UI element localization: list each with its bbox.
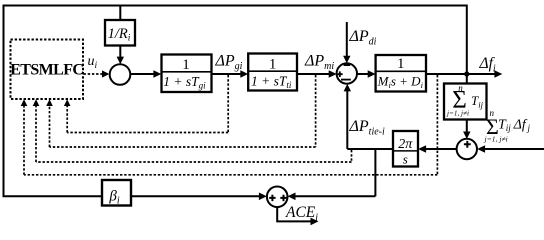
wire: load disturbance arrow into summing junction 2 bbox=[343, 22, 350, 63]
summing junction 3 bbox=[457, 139, 477, 159]
wire: governor to turbine bbox=[212, 70, 249, 78]
summing junction 2 bbox=[337, 63, 357, 83]
wire: tie-line signal from right edge into summing junction 3 bbox=[477, 145, 544, 153]
block governor 1/(1+sT_gi) bbox=[162, 55, 212, 93]
wire: sigma block output down into summing junction 3 bbox=[463, 120, 470, 140]
wire: feedback up to top line bbox=[466, 5, 468, 75]
wire: dashed rise 3 into controller bbox=[46, 99, 53, 147]
wire: 2pi/s output left along tie line bbox=[347, 148, 393, 150]
svg-text:s: s bbox=[403, 152, 408, 167]
svg-text:1: 1 bbox=[397, 56, 405, 72]
wire: dashed tap DeltaP_tie down bbox=[351, 150, 353, 162]
wire: branch down to ACE summing junction bbox=[288, 149, 376, 200]
svg-text:1: 1 bbox=[269, 56, 277, 72]
summing junction 1 bbox=[110, 64, 131, 85]
wire: tie-line feedback up into summing junction 2 bbox=[344, 84, 351, 149]
svg-text:n: n bbox=[490, 108, 495, 118]
wire: beta output into ACE summing junction bbox=[131, 193, 267, 201]
svg-text:Mis + Di: Mis + Di bbox=[377, 73, 424, 90]
block sum of T_ij bbox=[444, 83, 487, 120]
block 2pi/s bbox=[393, 131, 418, 167]
wire: junction 1 to governor block bbox=[130, 70, 161, 78]
label sum T_ij Deltaf_j bbox=[484, 108, 531, 144]
wire: generator output to Deltaf_i arrow bbox=[426, 70, 502, 78]
controller ETSMLFC dashed block bbox=[10, 40, 83, 100]
svg-text:j=1, j≠i: j=1, j≠i bbox=[446, 110, 469, 118]
wire: dashed rise 1 into controller bbox=[21, 99, 28, 175]
wire: dashed tap Deltaf down bbox=[436, 75, 438, 175]
wire: dashed tap DeltaP_gi down bbox=[227, 75, 229, 133]
wire: drop from top line into 1/R block bbox=[119, 6, 121, 21]
block generator 1/(M_i s + D_i) bbox=[376, 55, 426, 92]
wire: bottom row into beta block bbox=[3, 195, 103, 197]
svg-text:n: n bbox=[458, 83, 463, 93]
wire: junction down into sigma block bbox=[466, 74, 468, 84]
block beta_i bbox=[102, 180, 131, 207]
wire: ACE output down and right bbox=[277, 207, 318, 225]
svg-text:1 + sTti: 1 + sTti bbox=[251, 74, 292, 91]
wire: dashed row 4 bbox=[24, 174, 437, 176]
wire: turbine to summing junction 2 bbox=[297, 70, 337, 78]
svg-text:1: 1 bbox=[182, 57, 190, 73]
wire: 1/R block output down into summing junction 1 bbox=[117, 46, 124, 65]
svg-text:Tij Δf j: Tij Δf j bbox=[498, 118, 531, 134]
wire: dashed control signal u_i into summing junction 1 bbox=[84, 70, 110, 77]
block 1/R_i bbox=[105, 20, 135, 46]
svg-text:ETSMLFC: ETSMLFC bbox=[10, 62, 83, 79]
node: Deltaf feedback junction bbox=[464, 71, 469, 76]
svg-text:ACEi: ACEi bbox=[285, 204, 318, 224]
wire: dashed row 2 bbox=[50, 146, 316, 148]
wire: summing junction 2 to generator block bbox=[357, 70, 376, 78]
wire: dashed tap DeltaP_mi down bbox=[315, 75, 317, 147]
wire: top feedback line from Deltaf junction across the top bbox=[4, 5, 467, 7]
wire: dashed rise 4 into controller bbox=[64, 99, 71, 132]
svg-text:1/Ri: 1/Ri bbox=[108, 26, 131, 44]
svg-text:j=1, j≠i: j=1, j≠i bbox=[484, 135, 508, 144]
wire: summing junction 3 output into 2pi/s block bbox=[418, 145, 456, 153]
block turbine 1/(1+sT_ti) bbox=[248, 54, 297, 91]
svg-text:2π: 2π bbox=[398, 137, 413, 152]
wire: dashed rise 2 into controller bbox=[33, 99, 40, 162]
wire: left feedback vertical bbox=[3, 5, 5, 197]
wire: dashed row 1 bbox=[67, 132, 228, 134]
summing junction 4 (ACE) bbox=[267, 187, 288, 208]
wire: dashed row 3 bbox=[36, 161, 352, 163]
